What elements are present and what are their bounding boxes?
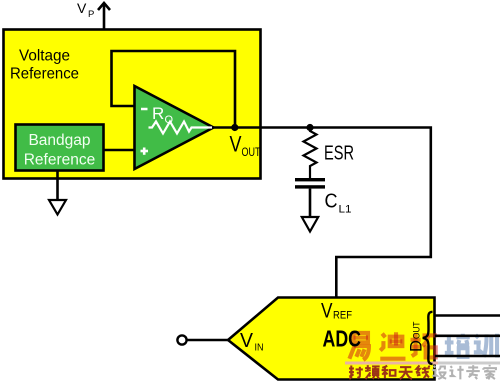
svg-text:L1: L1 (339, 204, 352, 216)
svg-text:V: V (321, 299, 333, 323)
svg-text:OUT: OUT (242, 147, 261, 159)
svg-text:P: P (88, 9, 94, 20)
svg-text:REF: REF (333, 310, 352, 322)
svg-text:C: C (325, 190, 338, 213)
svg-text:V: V (77, 0, 87, 16)
svg-text:OUT: OUT (412, 321, 423, 339)
svg-text:V: V (240, 330, 254, 352)
svg-text:V: V (230, 132, 242, 157)
svg-text:Reference: Reference (10, 66, 79, 83)
svg-text:ADC: ADC (323, 326, 362, 352)
svg-text:R: R (152, 104, 164, 123)
svg-text:IN: IN (255, 343, 264, 354)
svg-text:D: D (407, 340, 425, 352)
svg-text:Voltage: Voltage (19, 48, 70, 65)
svg-text:ESR: ESR (324, 142, 354, 165)
svg-text:Reference: Reference (24, 152, 96, 169)
svg-text:Bandgap: Bandgap (28, 132, 90, 149)
